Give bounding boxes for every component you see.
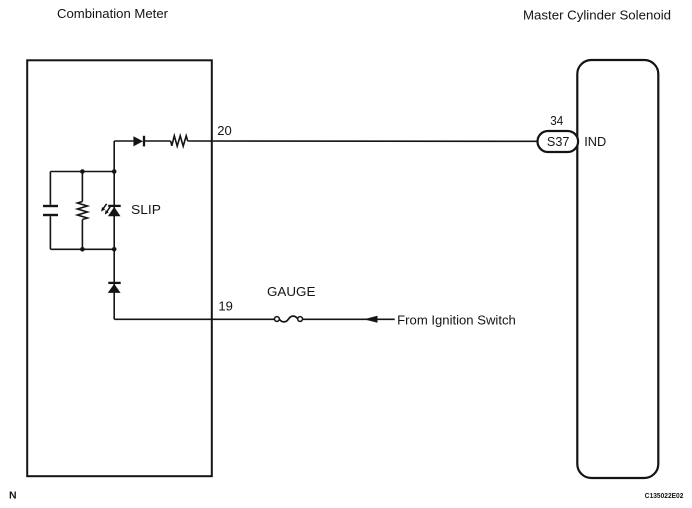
wire capacitor branch [49,172,51,250]
svg-text:Combination Meter: Combination Meter [57,6,169,21]
wire resistor branch [81,172,83,250]
wire pin19 horizontal [114,318,395,320]
svg-text:IND: IND [584,134,606,149]
fuse right circle [298,317,303,322]
svg-text:SLIP: SLIP [131,202,161,217]
arrow from ignition switch [364,316,378,323]
wire pin20 horizontal [114,140,537,142]
svg-text:GAUGE: GAUGE [267,284,316,299]
junction dot bottom left [80,247,85,252]
svg-text:From Ignition Switch: From Ignition Switch [397,312,516,327]
diode D1 [133,136,143,146]
master cylinder solenoid box [577,60,658,478]
fuse left circle [275,317,280,322]
junction dot bottom right [112,247,117,252]
wire main vertical [113,141,115,319]
svg-text:Master Cylinder Solenoid: Master Cylinder Solenoid [523,8,671,23]
wire top rail [50,171,114,173]
combination meter box [27,60,212,476]
resistor R1 [171,136,188,146]
svg-text:C135022E02: C135022E02 [645,491,684,500]
fuse element [280,316,298,322]
svg-text:S37: S37 [547,134,570,149]
diode D2 [108,282,120,284]
connector S37 oval [538,131,579,152]
wire bottom rail [50,248,114,250]
junction dot top left [80,169,85,174]
LED D3 SLIP [108,205,121,207]
svg-text:34: 34 [550,113,563,128]
svg-text:N: N [9,489,17,501]
LED light arrows [103,204,107,209]
capacitor C1 [43,205,58,207]
svg-text:20: 20 [217,123,232,138]
resistor R2 [77,202,87,220]
svg-text:19: 19 [218,299,233,314]
junction dot top right [112,169,117,174]
